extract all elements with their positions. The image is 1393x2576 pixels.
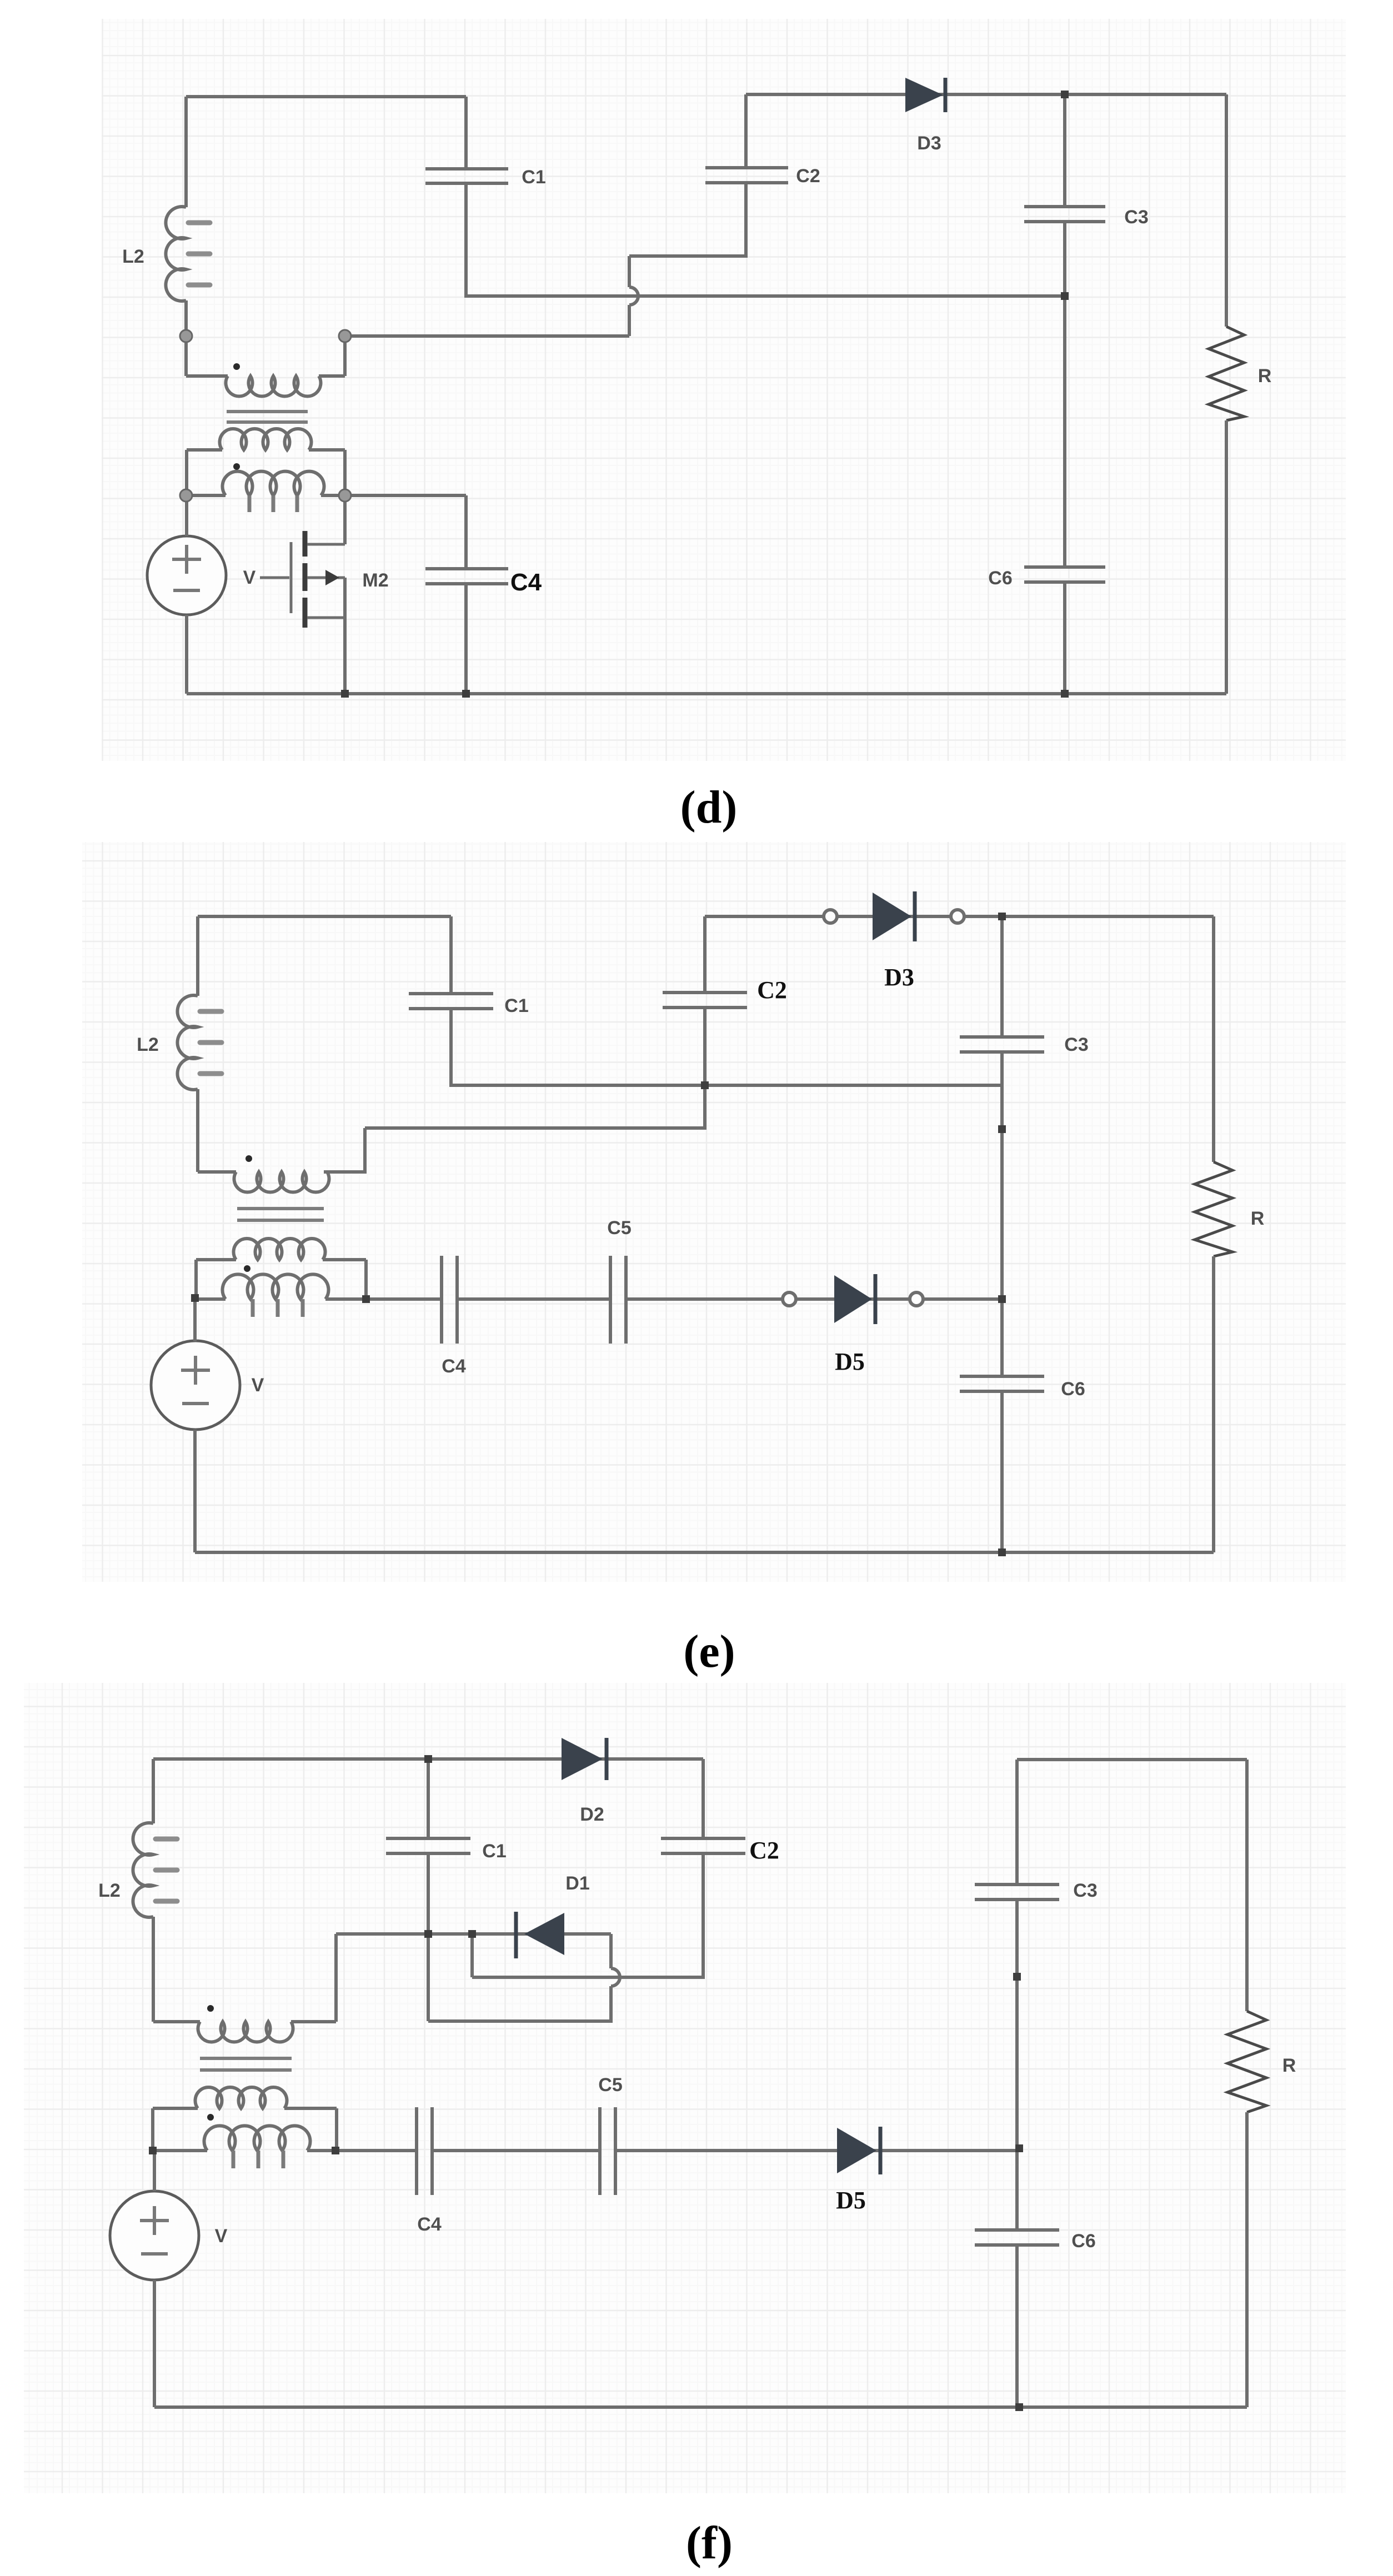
svg-text:L2: L2 [137,1034,159,1055]
svg-text:C2: C2 [796,166,820,187]
svg-text:C2: C2 [749,1837,779,1864]
svg-text:C2: C2 [757,976,787,1004]
svg-text:C5: C5 [598,2074,622,2096]
svg-text:D2: D2 [580,1804,604,1825]
svg-text:C3: C3 [1064,1034,1088,1055]
svg-text:V: V [252,1375,264,1396]
svg-text:C1: C1 [482,1841,506,1862]
svg-text:C3: C3 [1124,207,1148,228]
svg-text:D5: D5 [836,2187,866,2214]
svg-text:C1: C1 [504,995,528,1016]
svg-text:(e): (e) [683,1626,735,1677]
svg-text:R: R [1258,365,1272,387]
svg-text:C3: C3 [1073,1880,1097,1901]
svg-text:(d): (d) [680,781,738,833]
svg-text:D3: D3 [917,133,941,154]
svg-text:C6: C6 [988,568,1012,589]
svg-text:D3: D3 [884,964,914,991]
svg-text:C6: C6 [1061,1379,1085,1400]
svg-text:C4: C4 [417,2214,442,2235]
svg-text:C1: C1 [522,167,545,188]
svg-text:C4: C4 [510,569,542,596]
svg-text:D5: D5 [835,1348,865,1375]
svg-text:L2: L2 [98,1880,121,1901]
svg-text:C4: C4 [442,1356,466,1377]
svg-text:R: R [1251,1208,1265,1229]
svg-text:C6: C6 [1071,2231,1095,2252]
svg-text:C5: C5 [607,1217,631,1239]
svg-text:V: V [243,567,256,588]
svg-text:L2: L2 [122,246,144,267]
svg-text:(f): (f) [686,2517,733,2569]
svg-text:D1: D1 [565,1873,589,1894]
svg-text:V: V [215,2226,228,2247]
svg-text:R: R [1282,2055,1296,2076]
svg-text:M2: M2 [362,570,388,591]
